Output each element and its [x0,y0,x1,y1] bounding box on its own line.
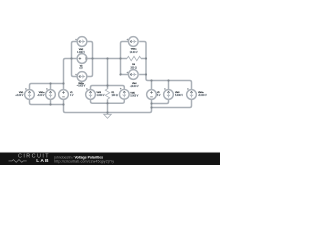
svg-text:10.00 V: 10.00 V [130,52,138,54]
wire: VM3 bottom hook to VM5 bottom (crosses R1 column) [91,99,125,103]
svg-text:5.000 V: 5.000 V [175,95,183,97]
voltmeter VM4a [127,37,139,47]
svg-text:VM4a: VM4a [131,49,137,51]
wire: VM6a bottom hook [152,99,192,107]
junction: VM1a bottom [49,103,51,105]
wire: left loop right bracket [87,42,93,77]
junction: VM3 bottom on R1 column [106,102,108,104]
svg-text:4 V: 4 V [70,95,74,97]
junction: right loop right on bus [145,57,147,59]
svg-text:4.000 V: 4.000 V [97,95,105,97]
svg-text:VM1a: VM1a [39,92,45,94]
wire: main top bus right of R4 [141,58,146,60]
junction: ground node on bottom bus [106,111,108,113]
voltmeter VM2a [75,72,87,82]
junction: VM4 row right [145,73,147,75]
svg-text:LAB: LAB [36,158,49,164]
svg-text:4 V: 4 V [79,68,83,70]
voltmeter VM5 (mid, across R1) [119,88,129,99]
svg-text:200 Ω: 200 Ω [131,67,137,69]
svg-text:http://circuitlab.com/czw45qpy: http://circuitlab.com/czw45qpy2j7ry [54,159,114,163]
wire: VM6 bottom hook [152,99,169,103]
wire: VM4 right stub [139,74,146,76]
voltmeter VM4 [127,70,139,80]
wire: R1 column lower (R1 to ground) [107,99,109,114]
junction: VM6a bottom bus [150,106,152,108]
junction: VM6 top [167,79,169,81]
voltmeter VM3 [86,88,96,99]
svg-text:+4.00 V: +4.00 V [15,95,23,97]
voltmeter VM2 [75,37,87,47]
junction: VM3 top on R1 column [106,84,108,86]
wire: VM6 top stub [168,81,170,90]
wire: left loop left bracket [72,42,78,77]
svg-text:-10.00 V: -10.00 V [130,86,139,88]
footer black bar [0,153,220,165]
junction: V5 top [150,79,152,81]
wire: VM1 top hook to V1 node [30,84,64,90]
wire: main top bus with V1 corner (left of R4) [64,59,128,90]
voltage source V3 [77,54,87,64]
svg-text:4.000 V: 4.000 V [77,52,85,54]
resistor R1 (vertical zigzag) [105,89,109,99]
wire: VM1 bottom hook [30,99,64,104]
wire: right loop right bracket extending to VM6a [139,42,191,90]
voltage source V5 [147,90,157,100]
junction: right loop left on bus [119,57,121,59]
resistor R4 (horizontal zigzag) [127,56,141,60]
wire: VM1a top stub [50,84,52,90]
junction: R1 column on bus [106,57,108,59]
junction: V1 bottom node [62,103,64,105]
wire: right loop left bracket [121,42,129,75]
svg-text:-4.00 V: -4.00 V [37,95,45,97]
wire: VM3 top hook to VM5 top (crosses R1 column) [91,86,125,90]
svg-text:100 Ω: 100 Ω [112,95,118,97]
junction: V1 top node [62,82,64,84]
voltmeter VM1a [46,88,56,99]
svg-text:VM6a: VM6a [198,92,204,94]
junction: VM4 row left [119,73,121,75]
junction: VM1a top [49,82,51,84]
junction: V5 bottom bus [150,102,152,104]
svg-text:5.000 V: 5.000 V [130,96,138,98]
junction: left loop left on bus [70,57,72,59]
logo resistor squiggle [9,160,27,163]
svg-text:5 V: 5 V [157,95,161,97]
voltmeter VM6a [187,88,197,99]
wire: R1 column upper (bus to R1) [107,59,109,89]
footer top border [0,151,220,154]
ground symbol [104,114,112,118]
voltage source V1 [59,90,69,100]
wire: V5 top stub [151,81,153,90]
svg-text:-4.000 V: -4.000 V [77,85,86,87]
voltmeter VM1 [25,88,35,99]
wire: V1 bottom to main bottom bus and up to V5 [64,99,152,112]
svg-text:-5.000 V: -5.000 V [198,95,207,97]
voltmeter VM6 [164,88,174,99]
junction: left loop right on bus [91,57,93,59]
wire: VM1a bottom stub [50,99,52,104]
